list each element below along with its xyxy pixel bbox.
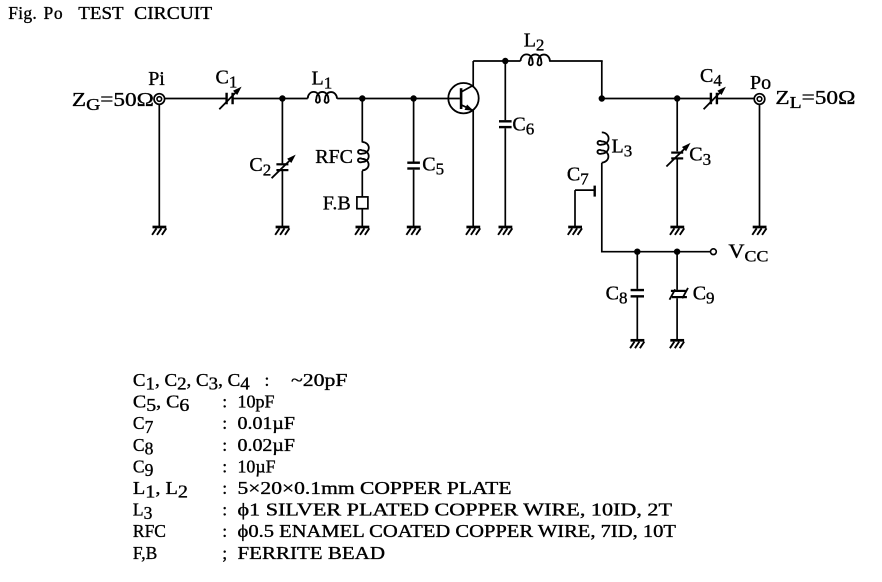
capacitor C5 (shunt 10pF) — [407, 163, 420, 169]
svg-text:Po: Po — [44, 3, 63, 23]
wire Po down to ground — [759, 105, 761, 227]
svg-text:Pi: Pi — [148, 68, 165, 90]
ground at F.B — [355, 227, 369, 235]
ground at emitter — [466, 227, 480, 235]
svg-text::: : — [222, 413, 227, 433]
capacitor C2 (variable, shunt) — [276, 164, 288, 170]
inductor L1 (series copper plate) — [308, 92, 337, 103]
svg-text:CIRCUIT: CIRCUIT — [134, 3, 212, 23]
wire C9 branch lower — [676, 298, 678, 340]
capacitor C7 (bypass, one plate bar) — [594, 186, 596, 197]
svg-text:ZL=50Ω: ZL=50Ω — [775, 88, 855, 112]
svg-text:ϕ1 SILVER PLATED COPPER WIRE,: ϕ1 SILVER PLATED COPPER WIRE, 10ID, 2T — [238, 500, 673, 520]
transistor Q1 base bar — [460, 88, 463, 109]
wire C6 branch lower — [504, 128, 506, 227]
terminal Vcc (open circle) — [711, 249, 717, 255]
wire L3 down to Vcc corner — [601, 163, 603, 253]
wire ferrite bead to ground — [361, 209, 363, 227]
svg-text::: : — [222, 500, 227, 520]
transistor Q1 body circle — [448, 83, 478, 113]
svg-text:Fig.: Fig. — [8, 3, 37, 23]
wire RFC branch upper — [361, 99, 363, 143]
wire Vcc rail — [637, 251, 710, 253]
wire C5 branch upper — [413, 99, 415, 162]
svg-text:0.02µF: 0.02µF — [238, 435, 296, 455]
wire C6 branch upper — [504, 61, 506, 120]
ground at C6 — [498, 227, 512, 235]
wire C5 branch lower — [413, 170, 415, 227]
transistor Q1 collector lead — [461, 85, 473, 92]
wire C2 branch lower — [281, 171, 283, 227]
svg-text:0.01µF: 0.01µF — [238, 413, 296, 433]
svg-text::: : — [222, 435, 227, 455]
capacitor C8 (0.02uF) — [631, 290, 644, 296]
inductor L3 (shunt silver plated coil) — [597, 132, 608, 162]
wire collector rail left — [473, 60, 520, 62]
wire C8 branch upper — [636, 252, 638, 289]
node G junction dot (C8 tap) — [634, 249, 640, 255]
wire C9 branch upper — [676, 252, 678, 290]
ground at C5 — [406, 227, 420, 235]
wire RFC to ferrite bead — [361, 171, 363, 197]
svg-text:FERRITE BEAD: FERRITE BEAD — [238, 543, 386, 563]
node H junction dot (C9 tap) — [674, 249, 680, 255]
capacitor C4 (variable, series output) — [711, 93, 717, 105]
ground at C8 — [630, 340, 644, 348]
ground at C7 — [568, 227, 582, 235]
wire collector rail right — [549, 60, 603, 62]
svg-text::: : — [222, 478, 227, 498]
node B junction dot (RFC tap) — [359, 95, 365, 101]
svg-text::: : — [265, 370, 270, 390]
node C junction dot (C5 tap) — [410, 95, 416, 101]
svg-text:;: ; — [222, 543, 227, 563]
node E junction dot (output rail / L3) — [599, 95, 605, 101]
svg-text:~20pF: ~20pF — [291, 370, 348, 390]
ground at Po — [752, 227, 766, 235]
svg-text:TEST: TEST — [78, 3, 124, 23]
wire rail corner down to output rail — [601, 61, 603, 99]
svg-text:ϕ0.5 ENAMEL COATED COPPER WIRE: ϕ0.5 ENAMEL COATED COPPER WIRE, 7ID, 10T — [238, 521, 677, 541]
wire C8 branch lower — [636, 298, 638, 341]
ground at C9 — [670, 340, 684, 348]
terminal Pi (input port) — [154, 94, 165, 105]
transistor Q1 emitter lead — [461, 105, 473, 111]
wire output rail to C4 — [602, 98, 711, 100]
wire C3 branch upper — [676, 99, 678, 152]
ground at C2 — [275, 227, 289, 235]
ground at Pi — [152, 227, 166, 235]
ground at C3 — [670, 227, 684, 235]
node F junction dot (C3 tap) — [674, 95, 680, 101]
node A junction dot (C2 tap) — [279, 95, 285, 101]
capacitor C3 (variable, shunt) — [671, 153, 683, 159]
svg-text::: : — [222, 392, 227, 412]
svg-text:RFC: RFC — [315, 146, 353, 168]
wire C2 branch upper — [281, 99, 283, 164]
svg-text:F.B: F.B — [323, 193, 351, 215]
svg-text:ZG=50Ω: ZG=50Ω — [72, 90, 154, 114]
wire C7 horizontal — [575, 189, 594, 191]
svg-text:10µF: 10µF — [238, 456, 276, 476]
inductor RFC (bias choke) — [358, 142, 369, 170]
svg-text:10pF: 10pF — [238, 392, 275, 412]
wire Pi to C1 — [165, 98, 227, 100]
capacitor C6 (shunt 10pF) — [499, 121, 512, 127]
svg-text::: : — [222, 456, 227, 476]
wire C7 down to ground — [574, 190, 576, 227]
node D junction dot (C6 tap) — [502, 58, 508, 64]
svg-text:Po: Po — [750, 72, 771, 94]
svg-text:5×20×0.1mm COPPER PLATE: 5×20×0.1mm COPPER PLATE — [238, 478, 512, 498]
terminal Po (output port) — [754, 94, 765, 105]
wire C1 to node A — [233, 98, 308, 100]
svg-text:F,B: F,B — [133, 543, 157, 563]
ferrite bead F.B — [357, 197, 368, 209]
svg-text:RFC: RFC — [133, 521, 166, 541]
wire C4 to Po — [717, 98, 754, 100]
capacitor C1 (variable, series input) — [227, 93, 233, 105]
svg-text::: : — [222, 521, 227, 541]
wire Pi down to ground — [158, 105, 160, 227]
wire L1 to transistor base — [337, 98, 460, 100]
inductor L2 (series copper plate) — [521, 54, 550, 65]
capacitor C9 (electrolytic 10uF) — [670, 288, 689, 300]
wire C3 branch lower — [676, 160, 678, 227]
